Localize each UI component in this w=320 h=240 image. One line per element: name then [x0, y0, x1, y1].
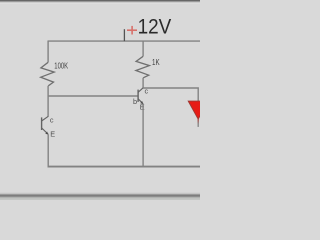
- svg-text:b: b: [133, 97, 137, 106]
- svg-text:E: E: [50, 130, 55, 139]
- transistor Q1: [42, 116, 49, 134]
- svg-text:c: c: [145, 86, 149, 95]
- svg-text:E: E: [140, 102, 145, 111]
- svg-text:1K: 1K: [152, 57, 160, 67]
- svg-text:100K: 100K: [54, 61, 68, 72]
- svg-text:12V: 12V: [138, 16, 172, 39]
- bottom window edge: [0, 192, 200, 200]
- wire: Q2 emitter to bottom rail: [142, 104, 144, 167]
- resistor R2 zigzag 1K: [136, 56, 150, 78]
- Q1 emitter arrowhead: [45, 132, 48, 135]
- Q2 emitter arrowhead: [140, 101, 143, 104]
- wire: R2 to Q2 collector node: [142, 78, 144, 88]
- wire: rail to R2: [142, 41, 144, 57]
- wire: LED cathode lead: [197, 119, 199, 127]
- transistor Q2: [138, 88, 143, 104]
- svg-text:c: c: [50, 115, 54, 124]
- top window edge: [0, 0, 200, 4]
- canvas background: [0, 0, 200, 200]
- wire: base node to Q2 base: [48, 95, 139, 97]
- wire: +12V top rail: [48, 40, 200, 42]
- wire: Q1 emitter to bottom rail: [47, 134, 49, 167]
- wire: rail corner down to R1: [47, 41, 49, 63]
- power tick for +12V: [123, 29, 125, 41]
- LED D1 red triangle: [188, 101, 208, 119]
- wire: R1 bottom to Q1 collector: [47, 86, 49, 117]
- resistor R1 zigzag: [41, 62, 55, 86]
- wire: collector node to LED: [143, 88, 198, 101]
- plus sign of supply: [127, 26, 137, 35]
- wire: bottom ground rail: [48, 166, 201, 168]
